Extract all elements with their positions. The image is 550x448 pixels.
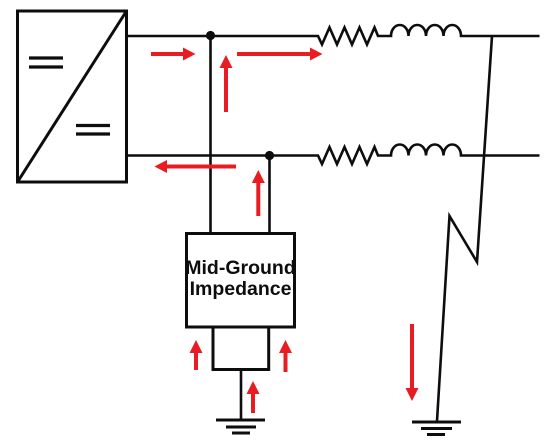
svg-text:Mid-Ground: Mid-Ground [185, 257, 295, 279]
svg-text:Impedance: Impedance [190, 278, 292, 300]
